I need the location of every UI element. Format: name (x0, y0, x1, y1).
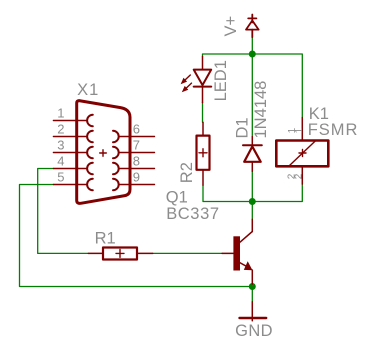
relay pin number 1 (287, 127, 305, 133)
svg-text:1: 1 (57, 106, 64, 121)
wire LED cathode to R2 (202, 103, 204, 123)
wire top rail LED to V+ junction (203, 54, 253, 57)
wire V+ junction down to D1 (251, 54, 253, 137)
X1 pin 5 (53, 179, 92, 190)
LED1 arrow 2 (182, 83, 192, 92)
svg-text:R1: R1 (95, 230, 116, 248)
wire V+ stem to junction (251, 37, 253, 54)
svg-text:1N4148: 1N4148 (252, 81, 270, 139)
relay pin number 2 (287, 173, 305, 179)
connector X1 body (77, 101, 130, 204)
svg-text:GND: GND (235, 322, 273, 340)
svg-text:9: 9 (133, 170, 140, 185)
svg-text:X1: X1 (77, 81, 99, 99)
svg-text:LED1: LED1 (212, 60, 230, 101)
junction at V+ rail (249, 51, 256, 58)
X1 pin 7 (113, 147, 155, 158)
wire mid junction to collector (251, 202, 253, 220)
transistor Q1 (222, 219, 252, 284)
relay K1 coil (276, 118, 328, 185)
svg-text:V+: V+ (222, 16, 240, 37)
svg-text:3: 3 (57, 138, 64, 153)
wire relay pin2 to mid junction (252, 184, 302, 202)
X1 pin 6 (113, 131, 155, 142)
LED1 arrow 1 (181, 75, 191, 84)
X1 pin 2 (53, 131, 92, 142)
svg-text:5: 5 (57, 170, 64, 185)
svg-text:1: 1 (294, 127, 305, 133)
wire R1 to base (153, 252, 222, 254)
ground (240, 302, 267, 321)
svg-text:2: 2 (57, 122, 64, 137)
wire X1 pin4 to R1 (38, 169, 89, 254)
svg-text:4: 4 (57, 154, 64, 169)
X1 pin 9 (113, 179, 155, 190)
X1 pin 3 (53, 147, 92, 158)
junction at mid rail (249, 198, 256, 205)
svg-text:Q1: Q1 (166, 189, 188, 207)
svg-text:FSMR: FSMR (308, 121, 359, 139)
svg-text:BC337: BC337 (166, 205, 219, 223)
X1 pin 8 (113, 163, 155, 174)
wire X1 pin5 to emitter rail (20, 185, 253, 287)
X1 pin 1 (53, 115, 92, 126)
wire D1 bottom to mid junction (251, 171, 253, 201)
wire R2 bottom to mid junction (203, 185, 252, 201)
svg-text:D1: D1 (234, 117, 252, 138)
svg-text:6: 6 (133, 122, 140, 137)
svg-text:8: 8 (133, 154, 140, 169)
wire top rail V+ junction to relay (252, 54, 302, 118)
LED LED1 (194, 57, 212, 103)
connector X1 center cross (100, 150, 107, 156)
svg-text:7: 7 (133, 138, 140, 153)
resistor R2 (197, 122, 210, 185)
X1 pin 4 (53, 163, 92, 174)
svg-text:R2: R2 (178, 162, 196, 183)
supply V+ symbol (246, 15, 259, 38)
svg-text:2: 2 (294, 173, 305, 179)
wire emitter junction to GND (251, 284, 253, 302)
diode D1 (243, 137, 262, 172)
resistor R1 (88, 248, 152, 260)
junction at emitter rail (249, 283, 256, 290)
